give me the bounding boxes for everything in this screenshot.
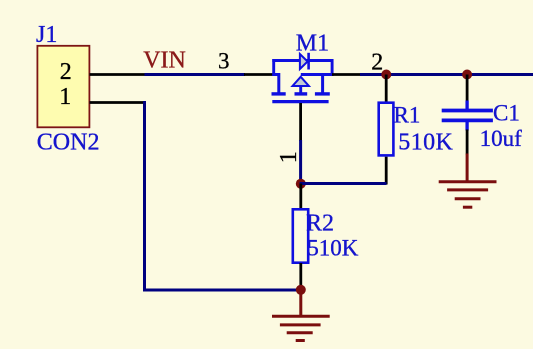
- value 10uf (C1): [480, 126, 522, 151]
- ground symbol at C1: [439, 154, 497, 208]
- wire gate to node: [299, 140, 302, 184]
- pin 1 of R1 (top stub): [385, 75, 388, 103]
- svg-text:VIN: VIN: [143, 48, 186, 74]
- wire bottom (to ground node): [143, 289, 301, 292]
- value CON2: [37, 130, 100, 156]
- pin number 2 (M1): [371, 49, 383, 75]
- svg-text:R2: R2: [306, 211, 334, 237]
- svg-text:R1: R1: [394, 103, 421, 128]
- designator R1: [394, 103, 421, 128]
- svg-text:510K: 510K: [398, 130, 453, 156]
- net label VIN: [143, 48, 186, 74]
- svg-text:1: 1: [59, 84, 71, 110]
- gate pin of M1 (black stub): [299, 103, 302, 141]
- svg-text:J1: J1: [36, 22, 57, 48]
- designator J1: [36, 22, 57, 48]
- svg-text:C1: C1: [493, 100, 520, 125]
- body diode of M1: [300, 53, 309, 70]
- junction node gate/R1/R2: [296, 179, 306, 189]
- pin 2 of C1 (bottom stub): [466, 130, 469, 155]
- designator R2: [306, 211, 334, 237]
- svg-text:510K: 510K: [307, 235, 359, 260]
- svg-text:M1: M1: [296, 30, 329, 56]
- wire J1 pin1 down (vertical): [143, 101, 146, 292]
- pin 2 of R1 (bottom stub): [385, 157, 388, 185]
- svg-text:2: 2: [60, 59, 72, 85]
- junction node at C1 top: [462, 70, 472, 80]
- svg-text:3: 3: [218, 49, 230, 74]
- svg-text:1: 1: [276, 151, 302, 163]
- pin 2 of J1 (stub): [90, 73, 147, 76]
- svg-text:10uf: 10uf: [480, 126, 522, 151]
- ground symbol at bottom: [272, 290, 330, 341]
- svg-text:CON2: CON2: [37, 130, 100, 156]
- junction node at bottom ground: [296, 285, 306, 295]
- designator C1: [493, 100, 520, 125]
- wire node to R1 bottom: [300, 182, 387, 185]
- resistor R2: [293, 209, 308, 262]
- pin number 1 (J1): [59, 84, 71, 110]
- pin 1 of J1 (stub): [90, 101, 147, 104]
- pin number 2 (J1): [60, 59, 72, 85]
- wire net VIN from J1 pin2 to M1: [145, 73, 246, 76]
- pin 2 of M1 (black stub): [332, 73, 361, 76]
- junction node at R1 top: [381, 70, 391, 80]
- resistor R1: [379, 103, 394, 156]
- transistor M1 (P-MOSFET symbol): [272, 59, 334, 102]
- pin 1 of R2 (top stub): [299, 184, 302, 210]
- wire output net (M1 to right edge): [360, 73, 533, 76]
- pin 3 of M1 (black stub): [244, 73, 274, 76]
- pin number 1 (M1, rotated): [276, 151, 302, 163]
- value 510K (R2): [307, 235, 359, 260]
- designator M1: [296, 30, 329, 56]
- svg-text:2: 2: [371, 49, 383, 75]
- pin 2 of R2 (bottom stub): [299, 263, 302, 291]
- substrate arrow of M1: [293, 77, 309, 86]
- pin 1 of C1 (top stub): [466, 75, 469, 102]
- connector J1 body: [37, 46, 89, 128]
- pin number 3 (M1): [218, 49, 230, 74]
- value 510K (R1): [398, 130, 453, 156]
- capacitor C1: [442, 101, 493, 131]
